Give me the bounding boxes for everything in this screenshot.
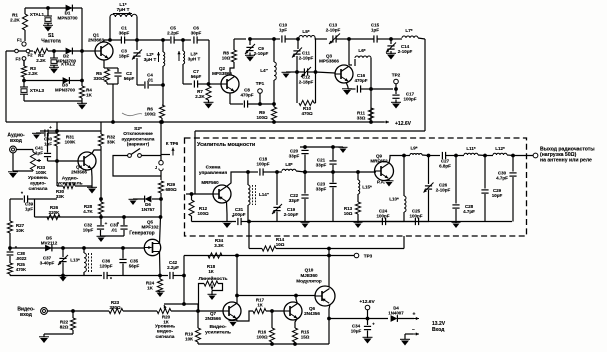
label C38 bbox=[16, 251, 27, 261]
label MRF560 bbox=[201, 180, 219, 185]
wire L5 right leg bbox=[314, 38, 317, 41]
junction bbox=[136, 39, 139, 42]
junction bbox=[81, 79, 84, 82]
label L14 bbox=[259, 192, 270, 197]
label R26 bbox=[49, 205, 61, 215]
label R18 text bbox=[198, 275, 227, 282]
label C13 bbox=[326, 23, 341, 33]
label C42 bbox=[167, 260, 179, 270]
svg-text:2-10pF: 2-10pF bbox=[284, 212, 299, 217]
label D6 bbox=[141, 202, 155, 212]
svg-text:2-10pF: 2-10pF bbox=[254, 51, 269, 56]
wire left edge down bbox=[5, 51, 7, 122]
crystal XTAL3 bbox=[23, 81, 25, 88]
tuning arrow L2 bbox=[158, 52, 160, 62]
svg-text:S2*: S2* bbox=[134, 126, 142, 132]
junction bbox=[332, 171, 335, 174]
svg-text:1μF: 1μF bbox=[25, 207, 33, 212]
junction bbox=[62, 274, 65, 277]
junction bbox=[395, 88, 398, 91]
ground Q3 bbox=[343, 90, 351, 95]
potentiometer R18 bbox=[204, 281, 218, 286]
label C20 bbox=[289, 149, 300, 159]
svg-text:10Ω: 10Ω bbox=[222, 56, 231, 61]
label R19 bbox=[185, 332, 194, 342]
svg-text:+: + bbox=[413, 312, 416, 318]
label Q9 bbox=[370, 154, 388, 164]
svg-text:4.7pF: 4.7pF bbox=[463, 209, 475, 214]
svg-text:470K: 470K bbox=[16, 267, 27, 272]
svg-text:1pF: 1pF bbox=[279, 28, 287, 33]
inductor L11 bbox=[456, 155, 464, 157]
junction bbox=[182, 39, 185, 42]
svg-text:10pF: 10pF bbox=[492, 193, 503, 198]
label R24 bbox=[146, 281, 155, 291]
label R4 bbox=[86, 88, 93, 98]
resistor R7 bbox=[206, 86, 211, 100]
resistor R12 bbox=[189, 200, 194, 216]
junction bbox=[276, 171, 279, 174]
label L6 bbox=[358, 48, 365, 53]
svg-text:82Ω: 82Ω bbox=[60, 325, 69, 330]
junction bbox=[122, 247, 125, 250]
junction bbox=[348, 38, 351, 41]
wire MRF emitter bbox=[226, 202, 229, 215]
junction bbox=[183, 303, 186, 306]
transistor Q9 MRF652 bbox=[375, 162, 394, 181]
label F3 bbox=[15, 57, 21, 62]
resistor R6 bbox=[162, 85, 164, 105]
svg-text:330Ω: 330Ω bbox=[93, 76, 105, 81]
label R32 bbox=[107, 135, 116, 145]
svg-text:2-10pF: 2-10pF bbox=[326, 28, 341, 33]
svg-text:ТР3: ТР3 bbox=[364, 254, 373, 259]
arrow plus bbox=[408, 318, 419, 320]
transistor Q3 MPS3866 bbox=[335, 65, 353, 83]
svg-text:L7*: L7* bbox=[405, 28, 412, 33]
svg-text:470Ω: 470Ω bbox=[301, 111, 313, 116]
label R33 bbox=[36, 165, 48, 175]
svg-text:33Ω: 33Ω bbox=[357, 116, 366, 121]
inductor L14 bbox=[247, 172, 249, 185]
label L5 bbox=[302, 29, 309, 34]
junction bbox=[109, 39, 112, 42]
junction bbox=[455, 154, 458, 157]
label Q4 text bbox=[57, 176, 82, 187]
resistor R31 bbox=[56, 122, 58, 134]
svg-text:1K: 1K bbox=[86, 93, 93, 98]
capacitor C37 variable bbox=[62, 248, 64, 257]
label 13.2V bbox=[432, 321, 446, 333]
label C3 bbox=[119, 49, 130, 59]
label Q1 bbox=[88, 33, 105, 43]
transistor Q7 2N3566 bbox=[223, 302, 241, 320]
junction bbox=[484, 154, 487, 157]
svg-text:100pF: 100pF bbox=[232, 212, 245, 217]
junction bbox=[370, 88, 373, 91]
svg-text:Модулятор: Модулятор bbox=[296, 278, 322, 283]
resistor R24 bbox=[157, 279, 162, 292]
potentiometer R20 bbox=[157, 308, 171, 313]
potentiometer R33 bbox=[32, 150, 34, 153]
terminal +12.6V bbox=[365, 305, 370, 310]
ground rail 0 bbox=[302, 224, 309, 229]
junction bbox=[9, 247, 12, 250]
junction bbox=[273, 103, 276, 106]
svg-text:L13*: L13* bbox=[70, 258, 80, 263]
svg-text:2N4356: 2N4356 bbox=[304, 311, 320, 316]
svg-text:3-40pF: 3-40pF bbox=[40, 261, 55, 266]
wire R14 drop bbox=[248, 222, 250, 249]
svg-text:2.2K: 2.2K bbox=[10, 18, 20, 23]
label F1 bbox=[17, 38, 23, 43]
svg-text:L10*: L10* bbox=[389, 197, 399, 202]
svg-text:+12.6V: +12.6V bbox=[359, 299, 375, 305]
ground PA top bbox=[342, 147, 344, 148]
arrow +12.6V bbox=[376, 121, 389, 123]
svg-text:Схема: Схема bbox=[206, 165, 221, 171]
wire Q10 emitter bbox=[329, 305, 330, 345]
label C22 bbox=[289, 193, 300, 203]
junction bbox=[512, 154, 515, 157]
wire Q3 base bbox=[316, 72, 336, 73]
terminal audio input bbox=[10, 146, 17, 153]
wire osc bottom bbox=[123, 275, 160, 277]
wire Q4 base bbox=[57, 160, 78, 162]
wire bias rail bbox=[35, 216, 161, 218]
capacitor C3 variable bbox=[136, 17, 138, 50]
resistor R30 bbox=[56, 161, 58, 186]
wire L7 feed down bbox=[424, 39, 426, 131]
svg-text:XTAL2: XTAL2 bbox=[61, 62, 76, 67]
capacitor C41 bbox=[47, 133, 49, 153]
label L7 bbox=[405, 28, 412, 33]
svg-text:100Ω: 100Ω bbox=[256, 335, 268, 340]
label R33 text bbox=[28, 175, 48, 192]
capacitor C7 bbox=[183, 83, 192, 85]
resistor R32 bbox=[100, 122, 102, 134]
junction bbox=[197, 310, 200, 313]
inductor L3 bbox=[182, 40, 184, 51]
svg-text:2N3566: 2N3566 bbox=[71, 170, 87, 175]
connector J bbox=[160, 152, 162, 161]
svg-text:100pF: 100pF bbox=[403, 97, 416, 102]
junction bbox=[273, 38, 276, 41]
svg-text:56pF: 56pF bbox=[191, 74, 202, 79]
label C5 bbox=[167, 26, 179, 36]
svg-text:2-10pF: 2-10pF bbox=[436, 188, 451, 193]
ground Q7 emitter bbox=[236, 318, 239, 322]
svg-text:L15*: L15* bbox=[362, 185, 372, 190]
label R5 bbox=[93, 71, 105, 81]
inductor L1 bbox=[109, 17, 111, 40]
capacitor C18 bbox=[248, 171, 258, 173]
label R23 bbox=[109, 300, 121, 310]
transistor Q5 MPF102 bbox=[144, 239, 160, 255]
svg-text:100pF: 100pF bbox=[409, 214, 422, 219]
resistor R8 bbox=[231, 50, 236, 62]
wire power rail bbox=[329, 318, 388, 320]
capacitor C36 bbox=[84, 275, 102, 277]
junction bbox=[207, 83, 210, 86]
transistor Q6 2N4356 bbox=[284, 302, 302, 320]
wire xtal3 bottom bbox=[24, 100, 82, 102]
junction bbox=[112, 121, 115, 124]
label R15 bbox=[301, 330, 310, 340]
label D1 bbox=[57, 11, 78, 21]
wire R29 to bias bbox=[160, 199, 162, 217]
svg-text:56pF: 56pF bbox=[129, 264, 140, 269]
resistor R29 bbox=[158, 181, 163, 193]
inductor L12 bbox=[485, 155, 493, 157]
dashed box power amplifier bbox=[185, 138, 527, 236]
ground rail 2 bbox=[455, 222, 457, 224]
ground R4 bbox=[81, 101, 83, 104]
svg-text:+: + bbox=[372, 322, 375, 327]
label +12.6V bbox=[395, 121, 412, 127]
svg-text:10Ω: 10Ω bbox=[276, 242, 285, 247]
svg-text:2-10pF: 2-10pF bbox=[299, 56, 314, 61]
label XTAL1 bbox=[30, 12, 45, 17]
junction bbox=[427, 154, 430, 157]
capacitor C40 bbox=[44, 129, 46, 136]
handwritten mark bbox=[122, 113, 142, 116]
wire to C13 bbox=[315, 38, 327, 40]
label L13 bbox=[70, 258, 80, 263]
wire Q2 collector bbox=[230, 62, 234, 75]
svg-text:100pF: 100pF bbox=[376, 214, 389, 219]
capacitor C26 variable bbox=[428, 156, 430, 185]
svg-text:аудио-: аудио- bbox=[30, 181, 46, 186]
label S2 text bbox=[122, 126, 155, 148]
svg-text:470pF: 470pF bbox=[240, 93, 253, 98]
wire Q6 collector bbox=[296, 296, 298, 305]
svg-text:сигнала: сигнала bbox=[29, 187, 48, 192]
junction bbox=[161, 121, 164, 124]
label C1 bbox=[119, 26, 130, 36]
junction bbox=[294, 343, 297, 346]
resistor R23 bbox=[109, 308, 123, 313]
svg-text:XTAL3: XTAL3 bbox=[30, 88, 45, 93]
label L2 bbox=[144, 52, 157, 62]
capacitor C42 bbox=[160, 275, 168, 277]
resistor R13 bbox=[355, 202, 360, 214]
wire Q2 emitter bbox=[229, 93, 231, 104]
svg-text:+12.6V: +12.6V bbox=[395, 121, 412, 127]
svg-text:L4″: L4″ bbox=[260, 68, 268, 73]
terminal RF output bbox=[533, 153, 538, 158]
resistor R34 bbox=[208, 253, 222, 258]
label L8 bbox=[285, 162, 292, 167]
capacitor C27 bbox=[429, 155, 441, 157]
node jack bbox=[15, 49, 19, 53]
svg-text:L11*: L11* bbox=[466, 146, 476, 151]
inductor L2 bbox=[162, 40, 164, 52]
junction bbox=[100, 198, 103, 201]
svg-text:3.3K: 3.3K bbox=[214, 243, 224, 248]
svg-text:MRF652: MRF652 bbox=[370, 159, 388, 164]
label R14 bbox=[276, 237, 285, 247]
resistor R25 bbox=[9, 256, 11, 263]
svg-text:2-10pF: 2-10pF bbox=[398, 49, 413, 54]
label C18 bbox=[256, 157, 269, 167]
svg-text:33K: 33K bbox=[107, 140, 116, 145]
inductor L4 bbox=[273, 39, 275, 62]
resistor R19 bbox=[197, 311, 199, 328]
wire audio bbox=[16, 149, 33, 151]
svg-text:управления: управления bbox=[199, 171, 228, 176]
label C4 bbox=[147, 73, 154, 83]
svg-text:.0022: .0022 bbox=[16, 256, 27, 261]
node F1 bbox=[22, 42, 26, 46]
label +12.6V in bbox=[359, 299, 375, 305]
svg-text:36pF: 36pF bbox=[119, 31, 130, 36]
junction bbox=[403, 154, 406, 157]
label C2 bbox=[124, 71, 135, 81]
svg-text:30pF: 30pF bbox=[191, 31, 202, 36]
svg-text:MRF560: MRF560 bbox=[201, 180, 219, 185]
capacitor C31 bbox=[237, 218, 239, 225]
label C8 bbox=[240, 88, 253, 98]
ground audio bbox=[12, 153, 14, 171]
junction bbox=[159, 216, 162, 219]
label R20 bbox=[162, 315, 171, 325]
test point TP1 bbox=[259, 94, 261, 105]
wire main2 bbox=[183, 39, 191, 41]
junction bbox=[159, 274, 162, 277]
svg-text:К ТР6: К ТР6 bbox=[166, 141, 179, 146]
junction bbox=[53, 50, 56, 53]
svg-text:1К: 1К bbox=[208, 269, 214, 274]
label C35 bbox=[129, 259, 140, 269]
junction bbox=[366, 317, 369, 320]
wire bus to switch bbox=[160, 122, 162, 152]
capacitor C8 bbox=[243, 100, 245, 107]
resistor R1 bbox=[22, 14, 27, 30]
wire emitter to R17 bbox=[237, 311, 253, 321]
junction bbox=[328, 247, 331, 250]
svg-text:Усилитель мощности: Усилитель мощности bbox=[197, 142, 255, 148]
junction bbox=[249, 38, 252, 41]
label F2 bbox=[27, 53, 33, 58]
svg-text:вход: вход bbox=[20, 312, 33, 318]
junction bbox=[390, 38, 393, 41]
label C32 bbox=[83, 223, 94, 233]
junction bbox=[295, 294, 298, 297]
svg-text:усилитель: усилитель bbox=[205, 330, 231, 335]
svg-text:L5*: L5* bbox=[302, 29, 309, 34]
junction bbox=[47, 7, 50, 10]
label TP1 bbox=[256, 81, 265, 86]
svg-text:10μF: 10μF bbox=[83, 228, 94, 233]
label D4 bbox=[388, 306, 404, 316]
svg-text:.01: .01 bbox=[111, 228, 118, 233]
tuning arrow L3 bbox=[178, 51, 180, 61]
label C31 bbox=[232, 207, 245, 217]
junction bbox=[248, 220, 251, 223]
resistor R9 bbox=[271, 107, 276, 120]
svg-text:330Ω: 330Ω bbox=[109, 305, 121, 310]
inductor L8 bbox=[277, 171, 282, 173]
wire video bbox=[47, 310, 109, 312]
svg-text:4.7K: 4.7K bbox=[83, 209, 93, 214]
label Q7 bbox=[205, 311, 221, 321]
label Q10 bbox=[296, 268, 322, 284]
svg-text:33K: 33K bbox=[56, 194, 65, 199]
svg-text:F1: F1 bbox=[17, 38, 23, 43]
label R18 bbox=[207, 264, 216, 274]
capacitor C34 bbox=[367, 319, 369, 326]
label R29 bbox=[165, 182, 177, 192]
ground C17 bbox=[392, 104, 400, 109]
svg-text:10μF: 10μF bbox=[351, 329, 362, 334]
svg-text:6.8pF: 6.8pF bbox=[439, 164, 451, 169]
label video in bbox=[17, 307, 35, 319]
ground MRF emitter bbox=[223, 223, 231, 228]
junction bbox=[236, 254, 239, 257]
wire wiper jog bbox=[184, 276, 198, 312]
svg-text:MJE360: MJE360 bbox=[300, 273, 318, 278]
label C39 bbox=[25, 202, 34, 212]
svg-text:680Ω: 680Ω bbox=[165, 187, 177, 192]
wire switch right bbox=[141, 155, 161, 157]
svg-text:4.7pF: 4.7pF bbox=[496, 176, 508, 181]
diode D4 bbox=[391, 315, 398, 322]
svg-text:2.2K: 2.2K bbox=[28, 71, 38, 76]
inductor L9 bbox=[404, 155, 410, 157]
capacitor C5 bbox=[170, 36, 172, 43]
label C28 bbox=[463, 204, 475, 214]
label C12 bbox=[299, 75, 314, 85]
svg-text:2-18pF: 2-18pF bbox=[299, 80, 314, 85]
svg-text:100Ω: 100Ω bbox=[197, 211, 209, 216]
wire Q3 collector bbox=[348, 39, 350, 65]
label Q5 text bbox=[129, 231, 155, 237]
svg-text:Видео-: Видео- bbox=[210, 324, 227, 330]
svg-text:P.A.: P.A. bbox=[377, 180, 385, 185]
capacitor C9 variable bbox=[249, 39, 251, 45]
svg-text:TP1: TP1 bbox=[256, 81, 265, 86]
junction bbox=[160, 198, 163, 201]
label C41 bbox=[35, 146, 44, 156]
wire F row bbox=[6, 50, 33, 52]
junction bbox=[273, 121, 276, 124]
label C24 bbox=[376, 209, 389, 219]
svg-text:1pF: 1pF bbox=[371, 28, 379, 33]
label PA text bbox=[377, 180, 385, 185]
junction bbox=[56, 130, 59, 133]
rail PA bottom bbox=[192, 221, 237, 223]
junction bbox=[296, 71, 299, 74]
svg-text:L9*: L9* bbox=[410, 146, 417, 151]
label R6 bbox=[144, 107, 156, 117]
wire C6 down bbox=[208, 40, 210, 84]
svg-text:470pF: 470pF bbox=[354, 78, 367, 83]
resistor R11 bbox=[368, 108, 373, 120]
label Q5 bbox=[141, 220, 159, 230]
junction bbox=[236, 294, 239, 297]
label TP2 bbox=[392, 73, 401, 78]
svg-text:сигнала: сигнала bbox=[156, 335, 175, 340]
label R28 bbox=[83, 204, 93, 214]
label R12 bbox=[197, 206, 209, 216]
switch S2 bbox=[128, 154, 132, 158]
svg-text:100K: 100K bbox=[36, 170, 48, 175]
terminal video input bbox=[41, 308, 48, 315]
svg-text:(вариант): (вариант) bbox=[127, 142, 150, 148]
svg-text:L14″: L14″ bbox=[259, 192, 270, 197]
capacitor C28 bbox=[455, 156, 457, 204]
